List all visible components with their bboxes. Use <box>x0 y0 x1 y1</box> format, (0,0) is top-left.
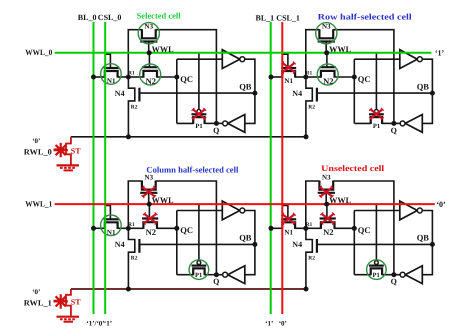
cell 3 transistor P1 <box>189 260 209 280</box>
cell 3 wire: N1 gate to CSL <box>105 206 110 220</box>
svg-text:N3: N3 <box>322 174 331 182</box>
cell 1 node BL junction <box>91 75 96 80</box>
cell 3 wire: N2 gate to WWL <box>148 204 150 218</box>
cell 4 transistor P1 <box>367 260 387 280</box>
svg-text:ST: ST <box>71 298 81 307</box>
cell 2 inverter I2 <box>400 115 422 133</box>
cell 4 wire: P1 gate to WWL <box>375 205 377 261</box>
svg-text:Q: Q <box>213 126 219 135</box>
svg-text:‘0’: ‘0’ <box>32 288 40 296</box>
cell 2 node Q junction <box>391 121 396 126</box>
cell 1 wire: N3 drain to node Q <box>156 30 217 124</box>
cell 1 wire: P1 drain to node Q <box>205 122 217 124</box>
column select line CSL_0 <box>104 22 106 314</box>
cell 1 transistor N4 <box>138 88 140 102</box>
svg-text:BL_1: BL_1 <box>256 14 275 23</box>
cell 2 wire: N3 source to node R1 <box>306 30 320 77</box>
svg-text:QC: QC <box>358 74 371 84</box>
svg-text:‘1’/‘0’: ‘1’/‘0’ <box>86 319 104 327</box>
cell 2 wire: BL to N1 source <box>271 76 282 78</box>
cell 4 wire: inverter loop I1 out to I2 in <box>422 211 432 275</box>
cell 3 X mark on N2 <box>143 212 158 224</box>
row 1 rail junction at left cell R2 <box>126 287 131 292</box>
svg-text:P1: P1 <box>372 272 379 279</box>
cell 4 wire: N4 channel node R1 to rail (R2) <box>306 228 312 289</box>
cell 1 wire: N1 drain to node R1 <box>118 76 129 78</box>
svg-text:WWL_1: WWL_1 <box>25 200 52 209</box>
cell 2 wire: P1 gate to WWL <box>375 53 377 109</box>
cell 3 node BL junction <box>91 226 96 231</box>
cell 4 wire: BL to N1 source <box>271 227 282 229</box>
svg-text:Q: Q <box>391 126 397 135</box>
svg-text:ST: ST <box>71 146 81 155</box>
svg-text:N4: N4 <box>292 89 302 98</box>
svg-text:Column half-selected cell: Column half-selected cell <box>146 165 239 175</box>
svg-text:N2: N2 <box>146 227 156 237</box>
cell 1 transistor N2 <box>140 64 161 85</box>
svg-text:P1: P1 <box>195 272 202 279</box>
cell 3 wire: inverter loop I1 out to I2 in <box>245 211 255 275</box>
cell 2 node BL junction <box>269 75 274 80</box>
cell 1 inverter I2 <box>223 115 245 133</box>
cell 4 wire: N2 drain to node QC <box>335 227 355 229</box>
svg-text:CSL_0: CSL_0 <box>98 13 122 22</box>
cell 1 node QB junction <box>252 91 257 96</box>
cell 1 wire: QC to inverter I1 input <box>177 58 223 60</box>
cell 2 transistor N3 <box>316 23 337 44</box>
cell 4 node R1 junction <box>303 226 308 231</box>
cell 1 node QC junction <box>174 75 179 80</box>
cell 4 node Q junction <box>391 272 396 277</box>
svg-text:R1: R1 <box>128 222 135 228</box>
cell 1 wire: N3 source to node R1 <box>128 30 142 77</box>
svg-text:QB: QB <box>239 81 252 91</box>
cell 1 wire: inverter loop I1 out to I2 in <box>245 59 255 123</box>
ground symbol row 1 <box>57 317 80 322</box>
svg-text:N1: N1 <box>284 77 293 85</box>
row 1 source rail wire <box>71 288 306 290</box>
cell 1 wire: node R1 to N2 source <box>128 76 143 78</box>
cell 3 wire: N3 drain to node Q <box>156 181 217 275</box>
svg-text:Selected cell: Selected cell <box>137 10 182 20</box>
cell 2 wire: N4 channel node R1 to rail (R2) <box>306 77 312 137</box>
cell 1 inverter I1 <box>222 50 244 69</box>
cell 2 X mark on P1 <box>369 108 384 120</box>
cell 4 wire: N1 drain to node R1 <box>295 227 306 229</box>
cell 3 X mark on N3 <box>142 186 157 198</box>
cell 2 node QC junction <box>352 75 357 80</box>
cell 4 X mark on N1 <box>281 213 296 225</box>
svg-text:N3: N3 <box>145 174 154 182</box>
cell 4 wire: QC to P1 source <box>354 274 370 276</box>
cell 3 wire: N3 source to node R1 <box>128 181 142 228</box>
cell 4 wire: N3 gate to WWL <box>325 193 327 204</box>
cell 1 node R1 junction <box>126 75 131 80</box>
cell 4 wire: N1 gate to CSL <box>283 206 288 220</box>
column select line CSL_1 <box>281 22 283 314</box>
svg-text:N4: N4 <box>115 89 125 98</box>
cell 3 transistor N4 <box>138 239 140 253</box>
cell 3 wire: QB line (N4 gate to inverter loop) <box>139 243 255 245</box>
cell 4 wire: node Q to inverter I2 output <box>394 274 400 276</box>
cell 3 wire: P1 gate to WWL <box>198 205 200 261</box>
cell 2 node QB junction <box>430 91 435 96</box>
bit line BL_1 <box>270 22 272 314</box>
cell 4 wire: N3 source to node R1 <box>306 181 320 228</box>
cell 3 wire: QC vertical <box>176 211 178 275</box>
cell 2 wire: N3 drain to node Q <box>333 30 394 124</box>
svg-text:N1: N1 <box>107 77 116 85</box>
svg-text:‘1’: ‘1’ <box>435 48 445 57</box>
cell 2 wire: node R1 to N2 source <box>306 76 321 78</box>
svg-text:‘0’: ‘0’ <box>279 319 287 327</box>
svg-text:WWL: WWL <box>152 195 174 205</box>
cell 4 transistor N1 <box>281 219 296 229</box>
svg-text:N2: N2 <box>323 76 333 86</box>
cell 2 transistor P1 <box>369 109 384 124</box>
cell 4 transistor N3 <box>318 181 335 193</box>
cell 2 inverter I1 <box>400 50 422 69</box>
cell 3 node Q junction <box>214 272 219 277</box>
cell 3 wire: node Q to inverter I2 output <box>216 274 222 276</box>
ground symbol row 0 <box>57 165 80 170</box>
cell 1 node Q junction <box>214 121 219 126</box>
svg-text:N2: N2 <box>323 227 333 237</box>
cell 1 transistor P1 <box>192 109 207 124</box>
cell 4 wire: QB line (N4 gate to inverter loop) <box>317 243 433 245</box>
transistor ST row 1 channel <box>66 289 71 316</box>
cell 1 wire: P1 gate to WWL <box>198 53 200 109</box>
cell 3 node QB junction <box>252 242 257 247</box>
cell 3 inverter I1 <box>222 201 244 220</box>
svg-text:Q: Q <box>391 277 397 286</box>
svg-text:‘0’: ‘0’ <box>436 200 446 209</box>
cell 3 wire: node R1 to N2 source <box>128 227 143 229</box>
cell 3 wire: P1 drain to node Q <box>205 274 217 276</box>
svg-text:P1: P1 <box>373 123 380 130</box>
cell 2 X mark on N1 <box>281 62 296 74</box>
svg-text:P1: P1 <box>195 123 202 130</box>
cell 3 wire: N2 drain to node QC <box>157 227 177 229</box>
X star mark on ST row 1 <box>54 294 68 308</box>
svg-text:‘0’: ‘0’ <box>32 137 40 145</box>
cell 3 transistor N2 <box>142 219 158 229</box>
cell 1 wire: N4 channel node R1 to rail (R2) <box>128 77 134 137</box>
cell 4 transistor N2 <box>320 219 336 229</box>
cell 4 node QC junction <box>352 226 357 231</box>
cell 1 transistor N3 <box>138 23 159 44</box>
svg-text:‘1’: ‘1’ <box>104 319 112 327</box>
cell 2 wire: N3 gate to WWL <box>325 42 327 53</box>
cell 3 wire: N4 channel node R1 to rail (R2) <box>128 228 134 289</box>
cell 1 wire: QC to P1 source <box>177 122 193 124</box>
cell 2 wire: N1 gate to CSL <box>283 54 288 68</box>
svg-text:QC: QC <box>180 74 193 84</box>
transistor ST row 1 gate lead from RWL_1 <box>54 300 66 302</box>
svg-text:N3: N3 <box>145 22 154 30</box>
transistor ST row 0 gate lead from RWL_0 <box>54 148 66 150</box>
svg-text:R2: R2 <box>308 104 315 110</box>
cell 2 node R1 junction <box>303 75 308 80</box>
svg-text:CSL_1: CSL_1 <box>276 14 300 23</box>
X star mark on ST row 0 <box>54 143 68 157</box>
row 0 source rail wire <box>71 136 306 138</box>
svg-text:QB: QB <box>417 233 430 243</box>
cell 1 wire: N2 gate to WWL <box>148 53 150 67</box>
svg-text:R2: R2 <box>131 104 138 110</box>
svg-text:RWL_0: RWL_0 <box>24 147 52 156</box>
cell 4 transistor N4 <box>316 239 318 253</box>
cell 4 wire: node R1 to N2 source <box>306 227 321 229</box>
svg-text:QC: QC <box>180 225 193 235</box>
svg-text:QB: QB <box>417 81 430 91</box>
cell 3 wire: QC to P1 source <box>177 274 193 276</box>
cell 1 X mark on P1 <box>192 108 207 120</box>
svg-text:R2: R2 <box>308 256 315 262</box>
svg-text:R1: R1 <box>306 71 313 77</box>
cell 3 wire: N3 gate to WWL <box>148 193 150 204</box>
cell 4 node QB junction <box>430 242 435 247</box>
cell 3 inverter I2 <box>223 266 245 284</box>
svg-text:R1: R1 <box>128 71 135 77</box>
cell 1 wire: QB line (N4 gate to inverter loop) <box>139 92 255 94</box>
svg-text:‘1’: ‘1’ <box>265 319 273 327</box>
svg-text:N4: N4 <box>115 240 125 249</box>
cell 2 transistor N2 <box>317 64 338 85</box>
cell 4 wire: N2 gate to WWL <box>326 204 328 218</box>
svg-text:RWL_1: RWL_1 <box>24 299 52 308</box>
cell 2 node WWL junction <box>324 50 329 55</box>
cell 2 wire: N2 drain to node QC <box>335 76 355 78</box>
cell 2 transistor N4 <box>316 88 318 102</box>
svg-text:N1: N1 <box>284 229 293 237</box>
cell 3 transistor N1 <box>101 215 122 236</box>
svg-text:R1: R1 <box>306 222 313 228</box>
cell 2 transistor N1 <box>281 68 296 78</box>
cell 1 wire: BL to N1 source <box>94 76 105 78</box>
cell 2 wire: P1 drain to node Q <box>382 122 394 124</box>
cell 2 wire: node Q to inverter I2 output <box>394 122 400 124</box>
svg-text:R2: R2 <box>131 256 138 262</box>
cell 3 wire: N1 drain to node R1 <box>118 227 129 229</box>
svg-text:BL_0: BL_0 <box>78 13 97 22</box>
cell 1 node WWL junction <box>147 50 152 55</box>
svg-text:N1: N1 <box>107 229 116 237</box>
svg-text:Q: Q <box>213 277 219 286</box>
bit line BL_0 <box>93 22 95 314</box>
svg-text:QB: QB <box>239 233 252 243</box>
svg-text:N3: N3 <box>322 22 331 30</box>
svg-text:WWL: WWL <box>329 195 351 205</box>
svg-text:Unselected cell: Unselected cell <box>321 163 385 173</box>
write word line WWL_0 <box>55 52 432 54</box>
cell 4 node BL junction <box>269 226 274 231</box>
cell 3 wire: QC to inverter I1 input <box>177 210 223 212</box>
row 0 rail junction at left cell R2 <box>126 134 131 139</box>
cell 2 wire: QB line (N4 gate to inverter loop) <box>317 92 433 94</box>
cell 4 wire: P1 drain to node Q <box>382 274 394 276</box>
cell 4 X mark on N2 <box>320 212 335 224</box>
svg-text:WWL: WWL <box>329 44 351 54</box>
svg-text:WWL: WWL <box>152 44 174 54</box>
svg-text:N4: N4 <box>292 240 302 249</box>
cell 3 transistor N3 <box>140 181 157 193</box>
cell 2 wire: QC vertical <box>353 59 355 123</box>
cell 2 wire: N2 gate to WWL <box>326 53 328 67</box>
cell 4 node WWL junction <box>324 202 329 207</box>
cell 4 wire: QC vertical <box>353 211 355 275</box>
svg-text:Row half-selected cell: Row half-selected cell <box>318 12 413 22</box>
cell 4 inverter I2 <box>400 266 422 284</box>
cell 3 wire: BL to N1 source <box>94 227 105 229</box>
cell 1 wire: N3 gate to WWL <box>148 42 150 53</box>
row 0 rail junction at right cell R2 <box>304 134 309 139</box>
cell 2 wire: inverter loop I1 out to I2 in <box>422 59 432 123</box>
cell 2 wire: QC to inverter I1 input <box>354 58 400 60</box>
cell 4 X mark on N3 <box>319 186 334 198</box>
cell 3 node QC junction <box>174 226 179 231</box>
cell 4 wire: N3 drain to node Q <box>333 181 394 275</box>
svg-text:QC: QC <box>358 225 371 235</box>
cell 1 wire: N1 gate to CSL <box>105 54 110 68</box>
cell 2 wire: N1 drain to node R1 <box>295 76 306 78</box>
cell 1 wire: QC vertical <box>176 59 178 123</box>
cell 1 wire: N2 drain to node QC <box>157 76 177 78</box>
cell 3 node WWL junction <box>147 202 152 207</box>
cell 4 wire: QC to inverter I1 input <box>354 210 400 212</box>
cell 2 wire: QC to P1 source <box>354 122 370 124</box>
svg-text:N2: N2 <box>146 76 156 86</box>
transistor ST row 0 channel <box>66 137 71 165</box>
cell 3 node R1 junction <box>126 226 131 231</box>
cell 1 wire: node Q to inverter I2 output <box>216 122 222 124</box>
cell 4 inverter I1 <box>400 201 422 220</box>
cell 1 transistor N1 <box>101 64 122 85</box>
row 1 rail junction at right cell R2 <box>304 287 309 292</box>
svg-text:WWL_0: WWL_0 <box>25 48 52 57</box>
write word line WWL_1 <box>55 203 435 205</box>
